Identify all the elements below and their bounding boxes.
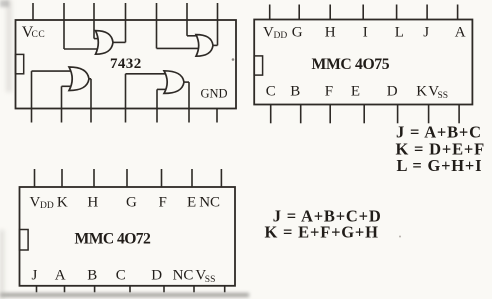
svg-text:J: J	[32, 268, 38, 284]
svg-text:G: G	[292, 25, 303, 41]
svg-text:MMC 4O75: MMC 4O75	[312, 56, 390, 73]
svg-text:NC: NC	[199, 195, 220, 211]
svg-text:V: V	[263, 25, 274, 41]
svg-text:GND: GND	[201, 86, 228, 100]
svg-text:J: J	[423, 25, 429, 41]
svg-text:MMC 4O72: MMC 4O72	[75, 231, 152, 248]
svg-text:V: V	[30, 195, 41, 211]
svg-text:K: K	[57, 195, 68, 211]
svg-text:L: L	[395, 25, 404, 41]
svg-text:NC: NC	[173, 268, 194, 284]
svg-text:E: E	[187, 195, 196, 211]
svg-text:K: K	[416, 84, 427, 100]
svg-text:7432: 7432	[110, 56, 142, 72]
svg-text:A: A	[55, 268, 66, 284]
svg-text:C: C	[116, 268, 126, 284]
svg-text:F: F	[159, 195, 167, 211]
svg-text:A: A	[455, 25, 466, 41]
svg-text:B: B	[290, 84, 300, 100]
svg-text:E: E	[351, 84, 360, 100]
svg-text:SS: SS	[205, 275, 216, 285]
svg-text:K = E+F+G+H: K = E+F+G+H	[265, 223, 379, 242]
svg-text:I: I	[363, 25, 368, 41]
svg-text:F: F	[325, 84, 333, 100]
svg-text:DD: DD	[274, 31, 288, 41]
svg-text:B: B	[87, 268, 97, 284]
svg-text:H: H	[87, 195, 98, 211]
svg-text:L = G+H+I: L = G+H+I	[397, 156, 483, 175]
svg-text:G: G	[126, 195, 137, 211]
svg-text:SS: SS	[438, 91, 449, 101]
svg-text:CC: CC	[32, 30, 46, 40]
svg-text:D: D	[387, 84, 398, 100]
svg-text:H: H	[325, 25, 336, 41]
svg-text:C: C	[266, 84, 276, 100]
svg-text:DD: DD	[40, 201, 54, 211]
svg-text:D: D	[151, 268, 162, 284]
